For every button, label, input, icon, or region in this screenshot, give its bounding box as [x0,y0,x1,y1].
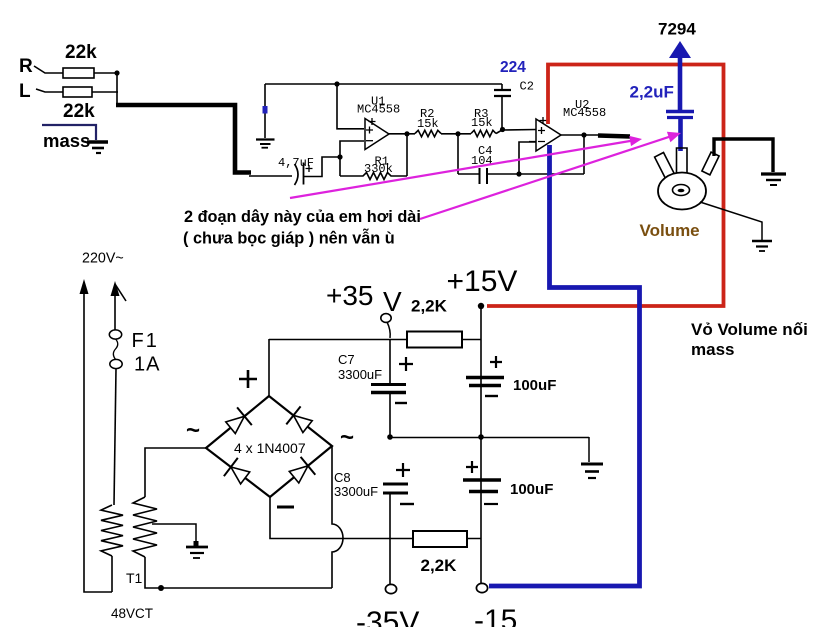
blue arrow to 7294 [678,52,683,110]
wire 2,2K to +15 node [462,339,481,341]
wire U1 ground feed [264,84,266,138]
junction C4 / U2 feedback [516,171,521,176]
svg-text:220V~: 220V~ [82,251,124,267]
svg-text:mass: mass [43,130,90,151]
svg-text:F1: F1 [132,330,159,352]
wire +35 rail [269,339,407,341]
svg-text:T1: T1 [126,570,143,586]
wire 220V left line [84,283,112,592]
wire 220V right line to fuse [114,284,116,330]
junction U1 output [404,131,409,136]
wire U2 feedback up [583,135,585,174]
wire volume right lug to ground [714,139,773,172]
capacitor 4,7uF [295,164,299,185]
junction +15 node [478,303,484,309]
red enclosure box [487,65,724,307]
diode D4 (bottom-right) [289,466,308,483]
terminal -15 [476,583,487,592]
ground volume right [761,174,786,185]
svg-text:C2: C2 [520,80,534,94]
op-amp U1 - input mark [366,140,373,142]
wire L input lead [36,89,63,92]
terminal -35V [385,584,396,593]
transformer T1 primary winding [101,505,123,556]
svg-text:~: ~ [340,424,354,451]
label + bridge [239,370,257,388]
annotation line 2 (magenta) [420,137,670,219]
svg-text:3300uF: 3300uF [334,484,378,499]
op-amp U2 - input mark [529,141,545,143]
svg-text:Vỏ Volume nối: Vỏ Volume nối [691,320,808,339]
svg-text:2 đoạn dây này của em hơi dài: 2 đoạn dây này của em hơi dài [184,208,421,226]
svg-text:C7: C7 [338,352,355,367]
wire blue cap to volume wiper [678,119,683,151]
svg-text:4 x 1N4007: 4 x 1N4007 [234,440,306,456]
resistor R3 15k [471,130,496,136]
wire U1 output [388,133,415,135]
resistor 22k (R) [63,68,94,78]
resistor 2,2K top [407,332,462,348]
svg-text:-15: -15 [474,604,517,627]
volume pot left lug [655,153,675,179]
ground mid rail [581,464,603,478]
wire bridge top to +35 rail [268,339,270,396]
resistor 2,2K bottom [413,531,467,547]
junction R3/C2 [500,127,505,132]
junction top rail to U1 + [334,81,339,86]
transformer T1 secondary winding [133,497,157,557]
wire input to 4,7uF [249,175,292,177]
svg-text:2,2uF: 2,2uF [630,83,674,102]
wire thick input run [116,105,251,173]
wire L resistor to junction [92,91,118,93]
junction on secondary bottom run [158,585,164,591]
wire +15/-15 vertical [480,306,482,585]
svg-text:3300uF: 3300uF [338,367,382,382]
resistor R1 330k [340,173,407,180]
wire R2 to R3 [441,133,471,135]
wire U1 + input [337,84,364,129]
wire 4,7uF to node [304,157,341,177]
svg-text:~: ~ [186,417,200,444]
bridge rectifier diamond [206,396,332,497]
wire top ground rail U1 [265,83,502,85]
svg-text:-35V: -35V [356,606,419,627]
svg-text:V: V [383,286,402,317]
wire volume body to ground [700,202,762,240]
wire thick U2 output to volume [598,136,630,137]
svg-text:C8: C8 [334,470,351,485]
fuse F1 [109,330,121,339]
svg-text:mass: mass [691,340,734,359]
svg-text:( chưa bọc giáp ) nên vẫn ù: ( chưa bọc giáp ) nên vẫn ù [183,229,395,248]
svg-text:R: R [19,56,33,77]
capacitor 2,2uF (blue) [666,110,694,114]
diode D3 (bottom-left) [231,467,250,484]
diode D2 (top-right) [294,415,313,432]
blue tick on ground feed [263,106,268,114]
wire secondary center tap [152,524,196,544]
junction mid rail +-15 [478,434,484,440]
wire C4 right lead [487,173,584,175]
capacitor C4 [479,168,481,184]
junction R2/R3/C4 [455,131,460,136]
ground U1 [256,140,275,148]
svg-text:22k: 22k [63,101,95,122]
svg-text:1A: 1A [134,354,160,376]
wire 2,2K bottom to -15 [467,538,481,540]
op-amp U1 + input mark [366,127,373,134]
ground volume body [752,241,772,251]
op-amp U2 + input mark [538,127,545,134]
svg-text:+15V: +15V [447,265,518,298]
blue shield wire U2 to -15 [489,145,640,586]
junction R/L [114,70,119,75]
wire R/L junction vertical [116,73,118,104]
wire R resistor to junction [94,72,118,74]
wire mid rail [390,437,589,439]
terminal +35V [381,314,391,323]
volume pot middle lug [677,148,688,173]
wire C4 left lead [458,173,479,175]
junction input to inverting node [337,154,342,159]
svg-text:15k: 15k [417,117,439,131]
wire R3 to U2 + [496,130,536,134]
svg-text:Volume: Volume [640,221,700,240]
svg-text:100uF: 100uF [513,377,556,394]
svg-text:48VCT: 48VCT [111,606,153,621]
ground mass [87,142,108,153]
capacitor C2 [501,84,503,90]
wire U1 - input [340,141,364,176]
wire bridge right corner down with hop [332,446,343,588]
svg-text:224: 224 [500,59,526,76]
wire mass lead [42,125,96,140]
volume pot shaft [673,185,690,196]
wire primary bottom [111,556,113,592]
wire fuse to primary [114,369,116,505]
svg-text:100uF: 100uF [510,481,553,498]
svg-text:2,2K: 2,2K [421,556,458,575]
junction U2 output [581,132,586,137]
svg-text:MC4558: MC4558 [357,103,400,117]
wire R1 feedback up [406,134,408,176]
svg-text:L: L [19,81,31,102]
op-amp U2 [536,119,561,151]
resistor 22k (L) [63,87,92,97]
wire C4 branch down [457,134,459,174]
op-amp U1 + power mark [369,118,376,125]
wire R input lead [34,66,63,73]
diode D1 (top-left) [226,416,245,433]
capacitor 100uF bottom [466,461,478,473]
volume pot right lug [702,152,719,175]
svg-text:MC4558: MC4558 [563,106,606,120]
svg-text:2,2K: 2,2K [411,297,448,316]
wire U2 output [561,134,601,136]
arrow 220V left [80,279,89,294]
ground center tap [186,541,208,558]
annotation line 1 (magenta) [290,141,633,199]
wire secondary bottom run [145,557,332,588]
capacitor C8 [396,463,410,477]
svg-text:22k: 22k [65,42,97,63]
capacitor C7 [389,339,391,383]
svg-text:7294: 7294 [658,20,696,39]
wire bridge bottom to -35 rail [270,497,413,539]
op-amp U1 [365,119,389,150]
resistor R2 15k [415,130,441,136]
volume pot body [658,173,706,210]
svg-text:15k: 15k [471,116,493,130]
wire U2 - input [519,142,536,174]
junction mid rail C7/C8 [387,434,393,440]
wire mid rail ground stub [588,437,590,462]
capacitor 100uF top [490,356,502,368]
svg-text:+35: +35 [326,280,374,311]
arrow 220V right [111,281,120,296]
wire secondary top to bridge left [145,448,206,497]
label - bridge [277,506,294,509]
op-amp U2 + power mark [540,117,547,124]
